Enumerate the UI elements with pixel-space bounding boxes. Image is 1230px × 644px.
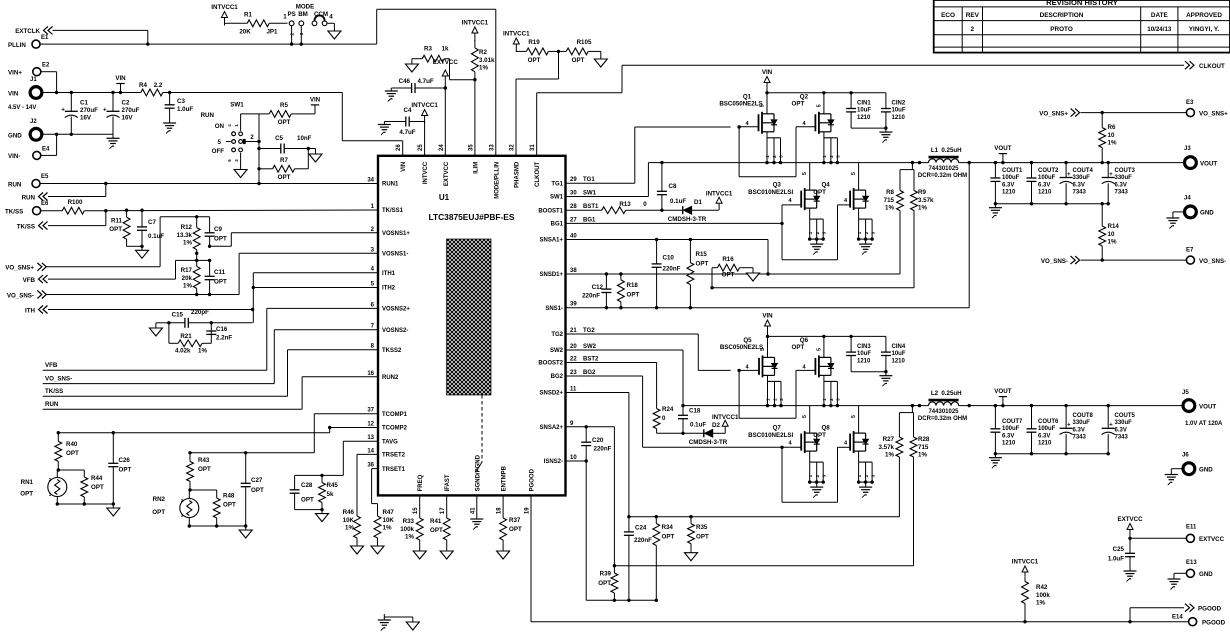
svg-text:R33: R33 — [403, 518, 415, 525]
svg-text:TK/SS: TK/SS — [17, 224, 35, 231]
svg-text:COUT8: COUT8 — [1073, 413, 1094, 419]
svg-text:GND: GND — [1199, 571, 1213, 578]
svg-text:C18: C18 — [689, 408, 701, 415]
svg-text:6.3V: 6.3V — [1002, 182, 1014, 188]
svg-text:BST2: BST2 — [583, 357, 599, 363]
svg-text:VIN: VIN — [115, 75, 126, 82]
node ITH chevron — [25, 306, 47, 315]
svg-text:OPT: OPT — [91, 484, 104, 491]
svg-text:GND: GND — [1199, 467, 1213, 474]
power INTVCC1 arrow at R19 — [503, 31, 530, 53]
wire VIN rail channel 1 — [767, 91, 853, 94]
svg-text:39: 39 — [570, 302, 577, 308]
U1 right pin numbers and names — [538, 177, 599, 465]
wire pin 36 TRSET1 row — [372, 469, 378, 510]
wire R2 to pin 35 ILIM — [473, 78, 476, 156]
svg-text:VOSNS2-: VOSNS2- — [382, 328, 408, 334]
svg-text:RUN: RUN — [45, 401, 59, 408]
svg-text:C1: C1 — [80, 100, 88, 107]
svg-text:R42: R42 — [1036, 584, 1048, 591]
svg-text:10uF: 10uF — [892, 351, 906, 357]
svg-text:J3: J3 — [1184, 146, 1191, 152]
svg-text:J6: J6 — [1182, 453, 1189, 459]
svg-text:5: 5 — [816, 348, 822, 351]
svg-text:+: + — [1067, 422, 1071, 429]
svg-text:VOSNS1+: VOSNS1+ — [382, 231, 410, 237]
svg-text:1210: 1210 — [1002, 441, 1016, 447]
connector E13 GND — [1186, 560, 1213, 578]
svg-text:6.3V: 6.3V — [1073, 182, 1085, 188]
svg-text:1%: 1% — [405, 534, 414, 541]
svg-text:EXTVCC: EXTVCC — [1199, 536, 1225, 543]
svg-text:ILIM: ILIM — [473, 162, 479, 174]
svg-text:2: 2 — [290, 32, 296, 35]
transistor Q8 OPT — [813, 406, 875, 498]
svg-text:6.3V: 6.3V — [1038, 433, 1050, 439]
svg-text:OPT: OPT — [598, 580, 611, 587]
power tap VIN at input — [115, 75, 126, 93]
transistor Q7 BSC010NE2LSI — [748, 406, 826, 498]
connector J5 VOUT — [1182, 390, 1223, 427]
svg-text:INTVCC1: INTVCC1 — [503, 31, 530, 38]
inductor L1 0.25uH 744301025 — [918, 147, 967, 179]
wire RN1 top tie — [57, 468, 85, 471]
svg-text:ITH2: ITH2 — [382, 286, 396, 292]
wire SW2 pin to switch node — [566, 350, 685, 407]
connector E2 VIN+ — [8, 63, 50, 77]
power INTVCC1 arrow at R1 — [211, 4, 238, 26]
node CLKOUT chevron — [1185, 61, 1225, 70]
wire VO_SNS+ to divider top — [46, 215, 209, 267]
svg-text:C10: C10 — [663, 255, 675, 262]
svg-text:BOOST2: BOOST2 — [538, 361, 563, 367]
svg-text:BST1: BST1 — [583, 204, 599, 210]
svg-text:BM: BM — [298, 11, 308, 18]
svg-text:R3: R3 — [424, 46, 432, 53]
svg-text:SW2: SW2 — [550, 348, 564, 354]
svg-text:C25: C25 — [1113, 546, 1125, 553]
U1 left pin numbers and names — [367, 178, 410, 473]
svg-text:4.02k: 4.02k — [175, 348, 191, 355]
svg-text:VIN: VIN — [762, 69, 773, 76]
svg-text:1%: 1% — [198, 348, 207, 355]
svg-text:SNS1-: SNS1- — [545, 306, 563, 312]
svg-text:OPT: OPT — [301, 497, 314, 504]
svg-text:OPT: OPT — [20, 491, 33, 498]
svg-text:OPT: OPT — [214, 236, 227, 243]
svg-text:2.2: 2.2 — [154, 82, 163, 89]
svg-text:2: 2 — [971, 26, 975, 33]
svg-text:26: 26 — [396, 144, 402, 151]
svg-text:R13: R13 — [619, 201, 631, 208]
svg-text:BSC010NE2LSI: BSC010NE2LSI — [748, 432, 793, 439]
svg-text:SW1: SW1 — [583, 191, 597, 197]
svg-text:E4: E4 — [42, 147, 50, 153]
svg-text:12: 12 — [367, 422, 374, 428]
svg-text:1: 1 — [822, 398, 827, 401]
svg-text:Q1: Q1 — [743, 93, 752, 100]
wire C28 R45 bottom — [295, 508, 324, 511]
svg-text:VO_SNS+: VO_SNS+ — [5, 265, 34, 272]
svg-text:R39: R39 — [600, 571, 612, 578]
svg-text:31: 31 — [530, 144, 536, 151]
wire EXTCLK to PLLIN — [53, 30, 150, 45]
svg-text:OPT: OPT — [696, 534, 709, 541]
svg-text:CCM: CCM — [314, 11, 328, 18]
svg-text:2: 2 — [773, 398, 778, 401]
svg-text:EXTVCC: EXTVCC — [1117, 516, 1143, 523]
connector E7 VO_SNS- — [1186, 248, 1226, 265]
svg-text:38: 38 — [570, 268, 577, 274]
svg-text:SNSD2+: SNSD2+ — [539, 391, 563, 397]
svg-text:5: 5 — [816, 104, 822, 107]
svg-text:OPT: OPT — [198, 466, 211, 473]
wire C15 row — [169, 321, 253, 324]
svg-text:OFF: OFF — [212, 148, 225, 155]
svg-text:100uF: 100uF — [1002, 426, 1020, 432]
svg-text:SGND/PGND: SGND/PGND — [475, 454, 481, 491]
svg-text:BSC050NE2LS: BSC050NE2LS — [719, 100, 762, 107]
svg-text:COUT1: COUT1 — [1002, 168, 1023, 174]
jumper JP1 MODE PS BM CCM — [287, 4, 333, 36]
svg-text:330uF: 330uF — [1115, 175, 1133, 181]
power INTVCC1 arrow at D1 — [706, 191, 733, 211]
svg-text:Q4: Q4 — [821, 182, 830, 189]
svg-text:10/24/13: 10/24/13 — [1147, 26, 1172, 33]
svg-text:10uF: 10uF — [857, 108, 871, 114]
svg-text:R48: R48 — [223, 493, 235, 500]
svg-text:PGOOD: PGOOD — [1202, 620, 1226, 627]
svg-text:6.3V: 6.3V — [1115, 427, 1127, 433]
svg-text:INTVCC1: INTVCC1 — [1012, 559, 1039, 566]
svg-text:TCOMP1: TCOMP1 — [382, 412, 408, 418]
svg-text:VOUT: VOUT — [1199, 403, 1216, 410]
connector J6 GND — [1182, 453, 1213, 475]
svg-text:PS: PS — [287, 11, 295, 18]
svg-text:E6: E6 — [41, 201, 49, 207]
wire pin 37 TCOMP1 row — [190, 414, 378, 453]
power INTVCC1 arrow at C4 — [411, 102, 438, 124]
svg-text:270uF: 270uF — [122, 107, 140, 114]
svg-text:2: 2 — [772, 155, 777, 158]
svg-text:2: 2 — [829, 155, 834, 158]
svg-text:R41: R41 — [430, 518, 442, 525]
svg-text:PLLIN: PLLIN — [8, 42, 26, 49]
svg-text:CIN3: CIN3 — [857, 344, 871, 350]
wire pin 39 SNS1- row — [566, 163, 970, 310]
svg-text:SNSD1+: SNSD1+ — [539, 272, 563, 278]
svg-text:R105: R105 — [577, 39, 592, 46]
svg-text:1%: 1% — [345, 525, 354, 532]
svg-text:1%: 1% — [918, 452, 927, 459]
svg-text:COUT4: COUT4 — [1073, 168, 1094, 174]
node EXTCLK chevron — [15, 26, 52, 35]
switch SW1 — [201, 102, 259, 167]
svg-text:R43: R43 — [198, 457, 210, 464]
svg-text:C15: C15 — [172, 312, 184, 319]
svg-text:VIN+: VIN+ — [8, 70, 22, 77]
svg-text:0.1uF: 0.1uF — [690, 422, 706, 429]
svg-text:INTVCC1: INTVCC1 — [712, 414, 739, 421]
svg-text:ON: ON — [215, 123, 225, 130]
svg-text:16V: 16V — [80, 115, 92, 122]
connector E1 PLLIN — [8, 35, 49, 49]
svg-text:OPT: OPT — [792, 344, 805, 351]
svg-text:1: 1 — [765, 155, 770, 158]
ground at COUT bus 1 — [989, 204, 1002, 219]
svg-text:RN1: RN1 — [21, 479, 34, 486]
svg-text:5: 5 — [218, 139, 222, 146]
connector E14 PGOOD — [1172, 615, 1226, 627]
svg-text:OPT: OPT — [722, 272, 735, 279]
power EXTVCC arrow — [433, 59, 459, 90]
svg-text:25: 25 — [418, 144, 424, 151]
wire R19 junction to pin 32 PHASMD — [516, 50, 560, 156]
svg-text:1%: 1% — [1108, 140, 1117, 147]
svg-text:BG1: BG1 — [551, 222, 564, 228]
svg-text:J4: J4 — [1184, 196, 1191, 202]
svg-text:VOUT: VOUT — [1200, 160, 1217, 167]
svg-text:1: 1 — [766, 398, 771, 401]
svg-text:11: 11 — [570, 387, 577, 393]
svg-text:744301025: 744301025 — [928, 409, 959, 415]
svg-text:10nF: 10nF — [297, 135, 312, 142]
svg-text:220nF: 220nF — [634, 537, 652, 544]
svg-text:DCR=0.32m OHM: DCR=0.32m OHM — [918, 416, 967, 422]
wire VO_SNS+ to E3 — [1081, 111, 1186, 114]
svg-text:1%: 1% — [183, 283, 192, 290]
svg-text:R35: R35 — [696, 524, 708, 531]
svg-text:C5: C5 — [275, 135, 283, 142]
svg-text:1210: 1210 — [1038, 190, 1052, 196]
svg-text:19: 19 — [525, 507, 531, 514]
svg-text:VOUT: VOUT — [994, 388, 1011, 395]
svg-text:21: 21 — [570, 328, 577, 334]
svg-text:+: + — [1109, 422, 1113, 429]
svg-text:CIN4: CIN4 — [892, 344, 906, 350]
svg-text:E2: E2 — [42, 63, 50, 69]
wire R8 R9 top jog to switch node — [900, 163, 914, 170]
svg-text:R47: R47 — [383, 509, 395, 516]
wire CIN34 bottom bus and ground — [851, 370, 892, 386]
svg-text:LTC3875EUJ#PBF-ES: LTC3875EUJ#PBF-ES — [429, 212, 515, 222]
svg-text:+: + — [61, 107, 65, 114]
svg-text:3: 3 — [779, 398, 784, 401]
svg-text:D2: D2 — [712, 422, 720, 429]
svg-text:RUN: RUN — [201, 112, 215, 119]
svg-text:E13: E13 — [1186, 560, 1197, 566]
svg-text:ITH1: ITH1 — [382, 271, 396, 277]
svg-text:VO_SNS-: VO_SNS- — [7, 292, 34, 299]
wire VO_SNS- row — [46, 293, 239, 296]
svg-text:R44: R44 — [91, 475, 103, 482]
wire R9 bottom sense row — [712, 287, 914, 289]
svg-text:3.57k: 3.57k — [918, 197, 934, 204]
svg-text:VOSNS2+: VOSNS2+ — [382, 307, 410, 313]
svg-text:DATE: DATE — [1151, 12, 1169, 19]
ground at C46 — [385, 88, 412, 102]
power tap VOUT channel 1 — [994, 145, 1011, 163]
svg-text:6.3V: 6.3V — [1002, 433, 1014, 439]
svg-text:C46: C46 — [399, 78, 411, 85]
svg-text:2: 2 — [815, 231, 820, 234]
svg-text:R12: R12 — [181, 224, 193, 231]
svg-text:RUN1: RUN1 — [382, 182, 399, 188]
svg-text:RUN: RUN — [8, 181, 22, 188]
svg-text:7343: 7343 — [1115, 435, 1129, 441]
wire SNSD2 sense row — [629, 515, 900, 518]
svg-text:3: 3 — [821, 231, 826, 234]
wire TKSS row to pin 1 — [48, 209, 378, 226]
wire RN2 top tie — [188, 488, 216, 491]
svg-text:INTVCC1: INTVCC1 — [462, 20, 489, 27]
svg-text:744301025: 744301025 — [928, 166, 959, 172]
wire pin 6 VOSNS2+ row to VFB net — [43, 308, 378, 370]
svg-text:100k: 100k — [400, 526, 414, 533]
svg-text:CLKOUT: CLKOUT — [1199, 63, 1225, 70]
svg-text:R17: R17 — [181, 267, 193, 274]
svg-text:E11: E11 — [1186, 525, 1197, 531]
wire pins 4 5 ITH tie — [252, 273, 378, 323]
svg-text:330uF: 330uF — [1073, 420, 1091, 426]
svg-text:EXTVCC: EXTVCC — [444, 161, 450, 186]
svg-text:330uF: 330uF — [1115, 420, 1133, 426]
svg-text:ISNS2-: ISNS2- — [544, 459, 563, 465]
svg-text:220nF: 220nF — [663, 266, 681, 273]
svg-text:SW1: SW1 — [550, 195, 564, 201]
svg-text:330uF: 330uF — [1073, 175, 1091, 181]
svg-text:100uF: 100uF — [1038, 175, 1056, 181]
svg-text:20: 20 — [570, 344, 577, 350]
svg-text:1%: 1% — [1108, 239, 1117, 246]
svg-text:40: 40 — [570, 234, 577, 240]
svg-text:VIN: VIN — [762, 313, 773, 320]
svg-text:E7: E7 — [1186, 248, 1194, 254]
svg-text:COUT5: COUT5 — [1115, 413, 1136, 419]
svg-text:30: 30 — [570, 191, 577, 197]
connector J2 GND — [8, 119, 42, 140]
ground at R3 — [405, 59, 418, 72]
svg-text:BSC010NE2LSI: BSC010NE2LSI — [748, 189, 793, 196]
wire L2 to VOUT rail 2 — [959, 404, 1184, 407]
svg-text:COUT3: COUT3 — [1115, 168, 1136, 174]
svg-text:APPROVED: APPROVED — [1186, 12, 1222, 19]
svg-text:Q8: Q8 — [821, 425, 830, 432]
svg-text:1210: 1210 — [892, 358, 906, 364]
svg-text:C7: C7 — [148, 219, 156, 226]
svg-text:PROTO: PROTO — [1050, 26, 1073, 33]
connector J4 GND — [1184, 196, 1214, 218]
svg-text:4.7uF: 4.7uF — [418, 78, 434, 85]
svg-text:TKSS2: TKSS2 — [382, 348, 402, 354]
svg-text:BG2: BG2 — [551, 374, 564, 380]
wire SNSA2 sense row to R28 — [614, 565, 913, 567]
svg-text:R15: R15 — [696, 251, 708, 258]
svg-text:3: 3 — [836, 398, 841, 401]
svg-text:C20: C20 — [592, 437, 604, 444]
svg-text:OPT: OPT — [66, 450, 79, 457]
svg-text:D1: D1 — [694, 199, 702, 206]
svg-text:5: 5 — [802, 415, 808, 418]
node R12 R17 junction — [195, 252, 198, 255]
svg-text:MODE: MODE — [296, 4, 315, 11]
svg-text:13.3k: 13.3k — [177, 232, 193, 239]
svg-text:JP1: JP1 — [266, 29, 278, 36]
svg-text:0.1uF: 0.1uF — [148, 233, 164, 240]
ground at C25 — [1124, 568, 1137, 582]
svg-text:IFAST: IFAST — [445, 474, 451, 491]
svg-text:E5: E5 — [41, 174, 49, 180]
wire SW1 pin to switch node — [566, 163, 649, 197]
svg-text:OPT: OPT — [572, 57, 585, 64]
svg-text:10: 10 — [1108, 231, 1115, 238]
ground at JP1 — [327, 23, 341, 39]
wire pin 31 CLKOUT to CLKOUT chevron — [537, 65, 1184, 156]
svg-text:SNSA2+: SNSA2+ — [539, 425, 563, 431]
svg-text:1%: 1% — [479, 65, 488, 72]
svg-text:OPT: OPT — [278, 119, 291, 126]
svg-text:10uF: 10uF — [892, 108, 906, 114]
svg-text:33: 33 — [489, 144, 495, 151]
svg-text:1: 1 — [857, 474, 862, 477]
svg-text:TRSET2: TRSET2 — [382, 453, 406, 459]
svg-text:OPT: OPT — [509, 526, 522, 533]
wire CIN bottom bus and ground — [851, 126, 892, 142]
svg-text:6.3V: 6.3V — [1115, 182, 1127, 188]
svg-text:OPT: OPT — [214, 279, 227, 286]
ground at R105 — [594, 51, 607, 67]
svg-text:+: + — [1109, 171, 1113, 178]
svg-text:220nF: 220nF — [582, 293, 600, 300]
U1 top pin numbers and names — [396, 144, 541, 199]
svg-text:J2: J2 — [30, 119, 37, 125]
wire COUT bottom bus 2 — [994, 452, 1110, 455]
wire C4 to pin 25 INTVCC — [409, 122, 424, 156]
transistor Q6 OPT — [792, 336, 841, 407]
svg-text:VOSNS1-: VOSNS1- — [382, 252, 408, 258]
wire pin 14 TRSET2 row — [357, 454, 378, 510]
svg-text:VIN: VIN — [401, 162, 407, 172]
inductor L2 0.25uH 744301025 — [918, 390, 967, 422]
svg-text:R34: R34 — [662, 524, 674, 531]
svg-text:1.0uF: 1.0uF — [177, 106, 193, 113]
power VIN arrow channel 2 — [762, 313, 773, 339]
svg-text:C26: C26 — [119, 457, 131, 464]
svg-text:VIN: VIN — [8, 91, 19, 98]
svg-text:YINGYI, Y.: YINGYI, Y. — [1189, 26, 1220, 33]
wire L1 to VOUT rail — [959, 161, 1186, 164]
svg-text:C3: C3 — [177, 98, 185, 105]
U1 bottom pin numbers and names — [413, 454, 535, 514]
ground at pin 41 SGND/PGND — [470, 495, 483, 529]
svg-text:TK/SS: TK/SS — [5, 209, 23, 216]
svg-text:C2: C2 — [122, 100, 130, 107]
wire pin 3 VOSNS1- row — [239, 253, 378, 294]
wire VIN rail to pin 26 — [170, 93, 403, 156]
svg-text:R1: R1 — [244, 12, 252, 19]
svg-text:2: 2 — [815, 474, 820, 477]
svg-text:1%: 1% — [885, 452, 894, 459]
svg-text:J1: J1 — [30, 77, 37, 83]
svg-text:VO_SNS-: VO_SNS- — [45, 375, 72, 382]
thermistor RN2 OPT — [152, 490, 199, 526]
svg-text:C9: C9 — [214, 226, 222, 233]
wire pin 40 SNSA1+ row — [566, 238, 901, 274]
svg-text:E3: E3 — [1186, 100, 1194, 106]
node VO_SNS+ chevron — [5, 263, 46, 272]
svg-text:L2: L2 — [931, 390, 939, 397]
svg-text:OPT: OPT — [662, 534, 675, 541]
